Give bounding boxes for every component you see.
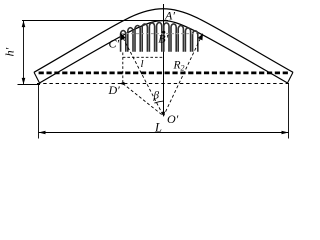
dashed half-chord line l <box>123 56 164 58</box>
svg-text:B′: B′ <box>158 31 168 45</box>
svg-text:O′: O′ <box>167 112 179 126</box>
svg-text:β: β <box>153 90 160 102</box>
radial dashed line to right band end (R2) <box>164 34 203 116</box>
left end cap <box>34 72 40 83</box>
left radial arrowhead <box>120 33 126 40</box>
D' arrowhead <box>119 82 124 85</box>
right end cap <box>288 72 294 83</box>
dimension h' vertical line <box>23 21 25 85</box>
h' bottom arrowhead <box>22 78 26 85</box>
svg-text:h′: h′ <box>3 47 17 56</box>
crown level extension line <box>22 20 168 22</box>
radial dashed line to left band end <box>121 34 164 117</box>
right radial arrowhead <box>198 33 203 40</box>
h' top arrowhead <box>22 21 26 28</box>
L right arrowhead <box>282 131 289 134</box>
L dimension extension line left <box>38 84 40 139</box>
corrugated band <box>121 31 126 52</box>
L dimension extension line right <box>288 84 290 139</box>
L left arrowhead <box>39 131 46 134</box>
axis arrowhead at O' <box>162 112 165 117</box>
arch extrados curve <box>34 9 293 73</box>
dashed line O' to D' <box>123 84 164 117</box>
thick dashed chord (extrados springing line) <box>39 72 288 75</box>
arch intrados curve <box>40 21 288 83</box>
svg-text:l: l <box>141 58 144 70</box>
svg-text:D′: D′ <box>108 83 121 97</box>
svg-text:L: L <box>154 120 162 134</box>
grey dashed line through corrugations <box>121 33 197 35</box>
svg-text:A′: A′ <box>164 9 175 23</box>
thin dashed chord (intrados springing line) <box>37 83 289 85</box>
svg-text:C′: C′ <box>109 37 120 51</box>
L dimension line <box>39 132 289 134</box>
beta angle arc <box>154 101 163 103</box>
point B' dot <box>162 31 165 34</box>
dashed vertical from band corner down to D' <box>122 53 124 84</box>
vertical centre axis <box>163 4 165 113</box>
left springing extension line <box>18 84 41 86</box>
